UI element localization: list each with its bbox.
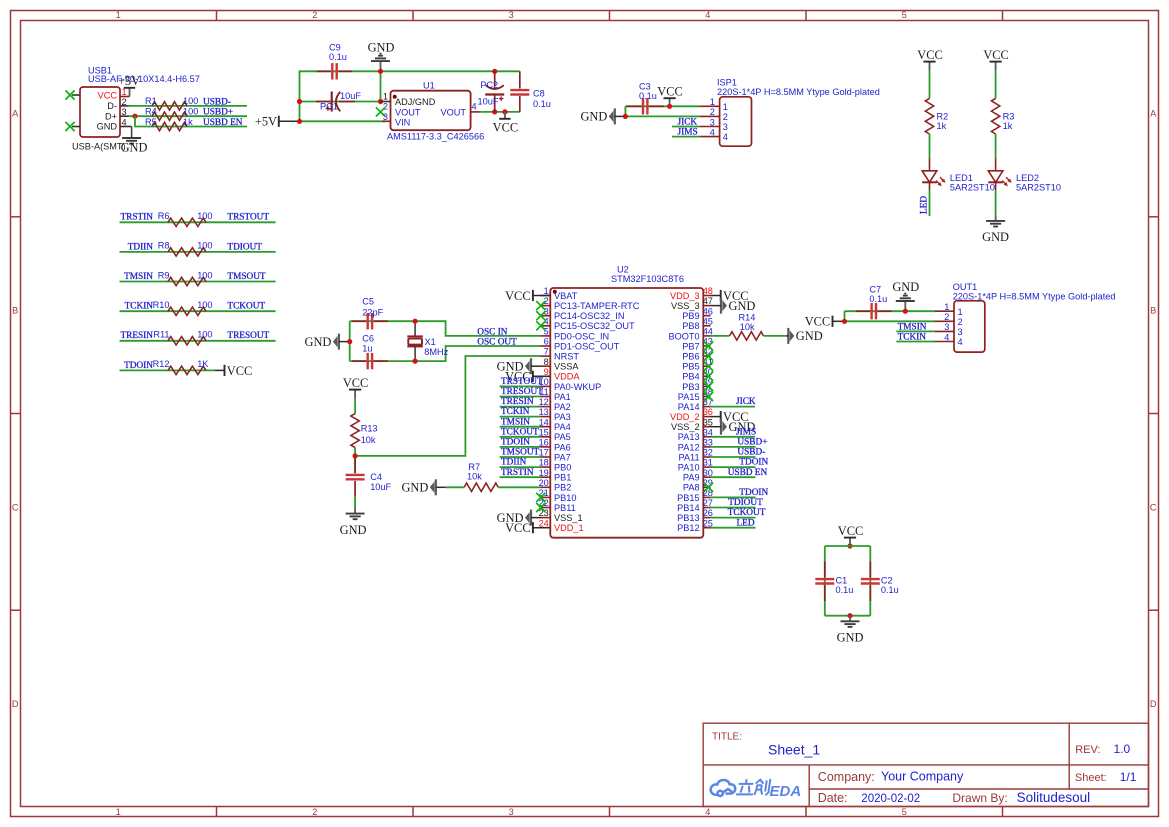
- svg-text:5: 5: [902, 10, 907, 20]
- svg-text:PA9: PA9: [683, 473, 700, 483]
- svg-text:6: 6: [544, 337, 549, 347]
- svg-text:1/1: 1/1: [1120, 770, 1137, 784]
- svg-text:3: 3: [958, 327, 963, 337]
- ground symbol at USB1 pin 4: [131, 127, 133, 138]
- U2 pin 28 PB15: [703, 496, 710, 498]
- resistor R12: [168, 366, 206, 374]
- OUT1 pin 4: [935, 341, 954, 343]
- svg-text:JIMS: JIMS: [736, 427, 756, 437]
- svg-text:1: 1: [958, 307, 963, 317]
- svg-text:22pF: 22pF: [362, 307, 383, 317]
- svg-text:4: 4: [472, 102, 477, 112]
- svg-text:TMSIN: TMSIN: [501, 417, 530, 427]
- svg-text:PB12: PB12: [677, 523, 699, 533]
- U1 pin 1 stub: [381, 101, 391, 103]
- svg-text:PA11: PA11: [678, 452, 699, 462]
- svg-text:A: A: [1150, 109, 1157, 119]
- ground symbol above C7 rail: [904, 301, 906, 311]
- svg-text:+5V: +5V: [118, 74, 140, 88]
- svg-text:PB4: PB4: [682, 372, 699, 382]
- U2 pin 42 PB6: [703, 355, 710, 357]
- wire R2 to LED1: [929, 134, 931, 159]
- svg-text:VCC: VCC: [343, 376, 368, 390]
- svg-text:AMS1117-3.3_C426566: AMS1117-3.3_C426566: [387, 132, 484, 142]
- svg-text:1: 1: [723, 102, 728, 112]
- wire VCC to OUT1 pin 2: [845, 320, 936, 322]
- resistor R10: [168, 307, 206, 315]
- svg-text:TCKIN: TCKIN: [125, 302, 154, 312]
- wire +5V input rail: [300, 71, 520, 121]
- LED LED1: [929, 159, 931, 171]
- svg-text:JIMS: JIMS: [678, 128, 698, 138]
- svg-text:1.0: 1.0: [1114, 742, 1131, 756]
- svg-text:U1: U1: [423, 80, 435, 90]
- power flag VCC at R13: [354, 390, 356, 398]
- svg-text:VIN: VIN: [395, 118, 410, 128]
- U2 pin 22 PB11: [540, 507, 550, 509]
- U2 pin 47 VSS_3: [703, 305, 710, 307]
- svg-text:C5: C5: [362, 297, 374, 307]
- ground flag at R7: [435, 479, 437, 495]
- logo LCEDA text li chuang: [737, 780, 770, 795]
- power flag VCC at U2 pin 24: [532, 522, 534, 533]
- USB1 pin 2 stub: [120, 105, 129, 107]
- svg-text:1: 1: [383, 91, 388, 101]
- ground flag at U2 pin 8: [530, 358, 532, 374]
- ground symbol above C9 rail: [380, 61, 382, 71]
- svg-text:PA8: PA8: [683, 483, 700, 493]
- svg-text:PA0-WKUP: PA0-WKUP: [554, 382, 601, 392]
- svg-text:10k: 10k: [467, 471, 482, 481]
- U2 pin 31 PA10: [703, 466, 710, 468]
- svg-text:1: 1: [116, 807, 121, 817]
- svg-text:PB2: PB2: [554, 483, 571, 493]
- svg-text:PB8: PB8: [682, 321, 699, 331]
- svg-text:GND: GND: [796, 329, 823, 343]
- power flag VCC at U2 pin 9: [532, 371, 534, 382]
- crystal X1: [414, 321, 416, 336]
- wire net TMSOUT to U2 pin 17: [500, 456, 541, 458]
- wire net TMSIN: [120, 281, 276, 283]
- svg-text:GND: GND: [837, 631, 864, 645]
- capacitor C6: [367, 353, 369, 369]
- svg-text:5AR2ST10: 5AR2ST10: [1016, 183, 1061, 193]
- svg-text:PA13: PA13: [678, 432, 700, 442]
- svg-text:ISP1: ISP1: [717, 77, 737, 87]
- svg-text:2: 2: [944, 312, 949, 322]
- U2 pin 43 PB7: [703, 345, 710, 347]
- wire VCC to R3: [995, 70, 997, 98]
- no-connect X on U2 pins 2-4: [536, 301, 545, 310]
- svg-text:9: 9: [544, 367, 549, 377]
- svg-text:OSC IN: OSC IN: [477, 327, 508, 337]
- wire USBD+ from USB1 pin 3: [129, 115, 248, 117]
- svg-text:PB5: PB5: [682, 362, 699, 372]
- svg-text:TRSTIN: TRSTIN: [120, 213, 153, 223]
- svg-text:48: 48: [703, 286, 713, 296]
- wire net TRSTIN: [120, 221, 276, 223]
- svg-text:2: 2: [710, 107, 715, 117]
- connector OUT1 body: [954, 301, 985, 352]
- svg-text:PB15: PB15: [677, 493, 699, 503]
- wire U1 pin1 vertical: [380, 71, 382, 101]
- svg-text:R4: R4: [145, 107, 157, 117]
- junction crystal bottom: [413, 359, 418, 364]
- svg-text:VCC: VCC: [917, 48, 942, 62]
- svg-text:USB-AF-90-10X14.4-H6.57: USB-AF-90-10X14.4-H6.57: [88, 74, 200, 84]
- svg-text:TDIIN: TDIIN: [501, 458, 527, 468]
- ground symbol below LED2: [995, 215, 997, 220]
- svg-text:USBD-: USBD-: [737, 448, 765, 458]
- U2 pin 45 PB8: [703, 325, 710, 327]
- voltage regulator U1 body: [391, 91, 471, 131]
- svg-text:C9: C9: [329, 43, 341, 53]
- capacitor C9: [331, 63, 333, 79]
- junction crystal gnd: [347, 339, 352, 344]
- svg-text:3: 3: [509, 807, 514, 817]
- svg-text:2: 2: [312, 10, 317, 20]
- U2 pin 26 PB13: [703, 517, 710, 519]
- resistor R14 from BOOT0: [710, 335, 729, 337]
- U2 pin 27 PB14: [703, 507, 710, 509]
- svg-text:R14: R14: [739, 313, 756, 323]
- svg-text:D: D: [1150, 699, 1157, 709]
- wire net USBD+ at U2 pin 33: [710, 446, 755, 448]
- svg-text:PA14: PA14: [678, 402, 700, 412]
- svg-text:VOUT: VOUT: [440, 107, 466, 117]
- svg-text:C2: C2: [881, 576, 893, 586]
- logo LCEDA cloud: [711, 780, 736, 796]
- svg-text:PB1: PB1: [554, 473, 571, 483]
- svg-text:GND: GND: [892, 280, 919, 294]
- svg-text:100: 100: [197, 211, 212, 221]
- U2 pin 25 PB12: [703, 527, 710, 529]
- capacitor C3: [642, 98, 644, 114]
- svg-text:VOUT: VOUT: [395, 107, 421, 117]
- svg-text:VBAT: VBAT: [554, 291, 578, 301]
- svg-text:220S-1*4P H=8.5MM Ytype Gold-p: 220S-1*4P H=8.5MM Ytype Gold-plated: [717, 87, 880, 97]
- svg-text:PB0: PB0: [554, 463, 571, 473]
- svg-text:Sheet:: Sheet:: [1075, 772, 1107, 784]
- svg-text:PA15: PA15: [678, 392, 700, 402]
- svg-text:TRESIN: TRESIN: [120, 331, 153, 341]
- U2 pin 23 VSS_1: [540, 517, 550, 519]
- junction VCC flag on VOUT: [502, 109, 507, 114]
- svg-text:C4: C4: [370, 472, 382, 482]
- U2 pin 9 VDDA: [540, 375, 550, 377]
- wire vertical to C7 rail: [844, 311, 846, 321]
- U2 pin 20 PB2: [540, 486, 550, 488]
- junction VCC ISP1: [667, 104, 672, 109]
- svg-text:PC2: PC2: [480, 80, 498, 90]
- svg-text:TCKOUT: TCKOUT: [501, 427, 539, 437]
- svg-text:PC13-TAMPER-RTC: PC13-TAMPER-RTC: [554, 301, 640, 311]
- svg-text:Company:: Company:: [818, 770, 875, 784]
- U2 pin 13 PA3: [540, 416, 550, 418]
- svg-text:36: 36: [703, 407, 713, 417]
- svg-text:C: C: [12, 502, 19, 512]
- svg-text:10uF: 10uF: [340, 91, 361, 101]
- svg-text:PA3: PA3: [554, 412, 571, 422]
- no-connect X on U2 pins 21-22: [536, 493, 545, 502]
- svg-text:1: 1: [710, 97, 715, 107]
- svg-text:5: 5: [544, 327, 549, 337]
- ground flag at crystal: [338, 334, 340, 350]
- wire GND to ISP1 pin 2: [625, 115, 700, 117]
- U2 pin 15 PA5: [540, 436, 550, 438]
- svg-text:GND: GND: [982, 230, 1009, 244]
- wire GND to R7: [446, 486, 464, 488]
- ground symbol below C1 C2: [849, 616, 851, 621]
- svg-text:Drawn By:: Drawn By:: [952, 791, 1007, 805]
- ground flag at U2 pin 23: [530, 510, 532, 526]
- svg-text:TMSOUT: TMSOUT: [501, 448, 540, 458]
- svg-text:220S-1*4P H=8.5MM Ytype Gold-p: 220S-1*4P H=8.5MM Ytype Gold-plated: [953, 291, 1116, 301]
- svg-text:TITLE:: TITLE:: [712, 732, 742, 743]
- resistor R2: [925, 98, 933, 134]
- svg-text:TDIOUT: TDIOUT: [227, 242, 262, 252]
- svg-text:1: 1: [116, 10, 121, 20]
- U2 pin 18 PB0: [540, 466, 550, 468]
- svg-text:PA4: PA4: [554, 422, 571, 432]
- wire LED2 to GND: [995, 190, 997, 215]
- svg-text:R11: R11: [153, 330, 169, 340]
- svg-text:10k: 10k: [740, 322, 755, 332]
- svg-text:PA1: PA1: [554, 392, 571, 402]
- U2 pin 29 PA8: [703, 486, 710, 488]
- resistor R8: [168, 248, 206, 256]
- svg-text:VCC: VCC: [838, 524, 863, 538]
- svg-text:Your Company: Your Company: [881, 770, 964, 784]
- svg-text:C: C: [1150, 502, 1157, 512]
- wire JICK to ISP1 pin 3: [672, 126, 700, 128]
- U1 pin 4 VOUT: [471, 111, 480, 113]
- svg-text:TDOIN: TDOIN: [501, 438, 530, 448]
- svg-text:VDD_2: VDD_2: [670, 412, 700, 422]
- svg-text:TRSTOUT: TRSTOUT: [501, 377, 543, 387]
- svg-text:2020-02-02: 2020-02-02: [861, 793, 920, 805]
- svg-text:46: 46: [703, 306, 713, 316]
- USB1 pin 4 stub: [120, 126, 132, 128]
- svg-text:USBD+: USBD+: [737, 438, 767, 448]
- U2 pin 36 VDD_2: [703, 416, 710, 418]
- resistor R7: [464, 483, 498, 491]
- svg-text:ADJ/GND: ADJ/GND: [395, 97, 436, 107]
- wire net TDIIN: [120, 251, 276, 253]
- svg-text:TRSTIN: TRSTIN: [501, 468, 534, 478]
- ISP1 pin 1: [700, 105, 719, 107]
- svg-text:D-: D-: [107, 101, 117, 111]
- svg-text:2: 2: [312, 807, 317, 817]
- svg-text:3: 3: [723, 122, 728, 132]
- svg-text:GND: GND: [580, 110, 607, 124]
- wire USBD EN branch: [135, 116, 247, 126]
- U2 pin 19 PB1: [540, 476, 550, 478]
- wire R3 to LED2: [995, 134, 997, 159]
- resistor R11: [168, 337, 206, 345]
- svg-text:R2: R2: [937, 111, 949, 121]
- svg-text:JICK: JICK: [736, 397, 756, 407]
- svg-text:TCKOUT: TCKOUT: [728, 508, 766, 518]
- wire net TRESIN to U2 pin 12: [500, 406, 541, 408]
- svg-text:TDOIN: TDOIN: [124, 361, 153, 371]
- svg-text:VDD_3: VDD_3: [670, 291, 700, 301]
- svg-text:EDA: EDA: [770, 783, 802, 800]
- svg-text:100: 100: [183, 96, 198, 106]
- resistor R6: [168, 218, 206, 226]
- svg-text:TMSIN: TMSIN: [898, 322, 927, 332]
- power flag VCC at OUT1: [832, 316, 834, 327]
- resistor R9: [168, 277, 206, 285]
- svg-text:+5V: +5V: [255, 115, 277, 129]
- ISP1 pin 2: [700, 115, 719, 117]
- svg-text:3: 3: [710, 117, 715, 127]
- svg-text:VCC: VCC: [983, 48, 1008, 62]
- junction PC2 top: [492, 69, 497, 74]
- svg-text:GND: GND: [368, 40, 395, 54]
- wire crystal top rail: [350, 321, 541, 336]
- U1 pin 3 stub: [382, 120, 391, 122]
- wire C7 rail to OUT1 pin 1: [845, 310, 936, 312]
- wire net TCKOUT at U2 pin 26: [710, 517, 755, 519]
- wire net TCKOUT to U2 pin 15: [500, 436, 541, 438]
- svg-text:0.1u: 0.1u: [836, 585, 854, 595]
- svg-text:TMSIN: TMSIN: [124, 272, 153, 282]
- wire net USBD- at U2 pin 32: [710, 456, 755, 458]
- svg-text:PA10: PA10: [678, 463, 700, 473]
- svg-text:PA2: PA2: [554, 402, 571, 412]
- svg-text:TDIOUT: TDIOUT: [728, 498, 763, 508]
- junction U1 pin 1: [378, 99, 383, 104]
- svg-text:VSS_1: VSS_1: [554, 513, 583, 523]
- wire net TRSTIN to U2 pin 19: [500, 476, 541, 478]
- wire net TRESOUT to U2 pin 11: [500, 396, 541, 398]
- svg-text:U2: U2: [617, 264, 629, 274]
- U2 pin 39 PB3: [703, 385, 710, 387]
- junction C9 to GND: [378, 69, 383, 74]
- capacitor C2: [861, 578, 880, 580]
- svg-text:GND: GND: [97, 122, 118, 132]
- IC U2 body: [550, 288, 703, 538]
- svg-text:USBD EN: USBD EN: [203, 118, 243, 128]
- svg-text:A: A: [12, 109, 19, 119]
- wire TCKIN to OUT1 pin 4: [896, 341, 935, 343]
- USB1 left shield pin bottom with no-connect X: [72, 126, 80, 128]
- U2 pin 16 PA6: [540, 446, 550, 448]
- svg-text:PB14: PB14: [677, 503, 699, 513]
- svg-text:TCKIN: TCKIN: [501, 407, 530, 417]
- svg-text:1k: 1k: [937, 121, 947, 131]
- svg-text:TDOIN: TDOIN: [739, 458, 768, 468]
- wire net TDOIN: [120, 369, 215, 371]
- svg-text:TRSTOUT: TRSTOUT: [227, 213, 269, 223]
- U2 pin 46 PB9: [703, 315, 710, 317]
- power flag VCC at R12: [224, 365, 226, 376]
- ISP1 pin 4: [700, 136, 719, 138]
- svg-text:GND: GND: [401, 481, 428, 495]
- svg-text:GND: GND: [305, 335, 332, 349]
- ground flag after R14: [787, 328, 789, 344]
- wire net TRSTOUT to U2 pin 10: [500, 385, 541, 387]
- junction at +5V flag: [297, 119, 302, 124]
- USB1 pin 3 stub: [120, 115, 129, 117]
- wire VCC to R13: [354, 398, 356, 414]
- svg-text:2: 2: [958, 317, 963, 327]
- svg-text:5AR2ST10: 5AR2ST10: [950, 183, 995, 193]
- wire C1 C2 loop: [825, 545, 871, 547]
- svg-text:0.1u: 0.1u: [533, 99, 551, 109]
- svg-text:1K: 1K: [197, 359, 209, 369]
- OUT1 pin 1: [935, 310, 954, 312]
- U2 pin 33 PA12: [703, 446, 710, 448]
- svg-text:30: 30: [703, 468, 713, 478]
- svg-text:24: 24: [539, 518, 549, 528]
- svg-text:4: 4: [710, 127, 715, 137]
- svg-text:R9: R9: [158, 270, 170, 280]
- no-connect X on U2 pin 29: [704, 483, 713, 492]
- svg-text:PA7: PA7: [554, 452, 571, 462]
- ground flag at U2 pin 35: [720, 419, 722, 435]
- U2 pin 40 PB4: [703, 375, 710, 377]
- svg-text:100: 100: [197, 270, 212, 280]
- svg-text:LED2: LED2: [1016, 173, 1039, 183]
- svg-text:C8: C8: [533, 88, 545, 98]
- svg-text:USBD+: USBD+: [203, 108, 233, 118]
- svg-text:4: 4: [705, 10, 710, 20]
- connector USB1 body: [80, 87, 120, 137]
- svg-text:VSSA: VSSA: [554, 362, 579, 372]
- svg-text:R8: R8: [158, 241, 170, 251]
- svg-text:VSS_2: VSS_2: [671, 422, 700, 432]
- svg-text:PB11: PB11: [554, 503, 576, 513]
- svg-text:C1: C1: [836, 576, 848, 586]
- svg-text:PC14-OSC32_IN: PC14-OSC32_IN: [554, 311, 624, 321]
- LED LED2: [995, 159, 997, 171]
- svg-text:R6: R6: [158, 211, 170, 221]
- svg-text:LED: LED: [737, 518, 755, 528]
- U2 pin 37 PA14: [703, 406, 710, 408]
- wire net JICK at U2 pin 37: [710, 406, 755, 408]
- svg-text:VCC: VCC: [505, 289, 530, 303]
- U2 pin 44 BOOT0: [703, 335, 710, 337]
- wire net TRESIN: [120, 340, 276, 342]
- resistor R4: [152, 112, 187, 120]
- connector ISP1 body: [720, 97, 752, 146]
- svg-text:USB-A(SMT): USB-A(SMT): [72, 141, 126, 151]
- svg-text:D+: D+: [105, 111, 117, 121]
- svg-text:TCKIN: TCKIN: [898, 332, 927, 342]
- U2 pin 41 PB5: [703, 365, 710, 367]
- U2 pin 8 VSSA: [540, 365, 550, 367]
- svg-text:35: 35: [703, 417, 713, 427]
- wire R13 to C4: [354, 448, 356, 473]
- svg-text:0.1u: 0.1u: [869, 294, 887, 304]
- svg-text:VCC: VCC: [505, 521, 530, 535]
- wire VOUT rail: [480, 111, 520, 113]
- power flag VCC at ISP1: [669, 98, 671, 106]
- wire crystal bottom rail: [350, 346, 541, 361]
- svg-text:R1: R1: [145, 96, 157, 106]
- ground symbol below C4: [354, 508, 356, 513]
- svg-text:TRESOUT: TRESOUT: [501, 387, 543, 397]
- svg-text:TRESIN: TRESIN: [501, 397, 534, 407]
- svg-text:100: 100: [197, 300, 212, 310]
- svg-text:10uF: 10uF: [370, 482, 391, 492]
- power flag VCC at U2 pin 36: [720, 411, 722, 422]
- wire net TDOIN at U2 pin 28: [710, 496, 755, 498]
- svg-text:TDOIN: TDOIN: [739, 488, 768, 498]
- svg-text:10k: 10k: [361, 435, 376, 445]
